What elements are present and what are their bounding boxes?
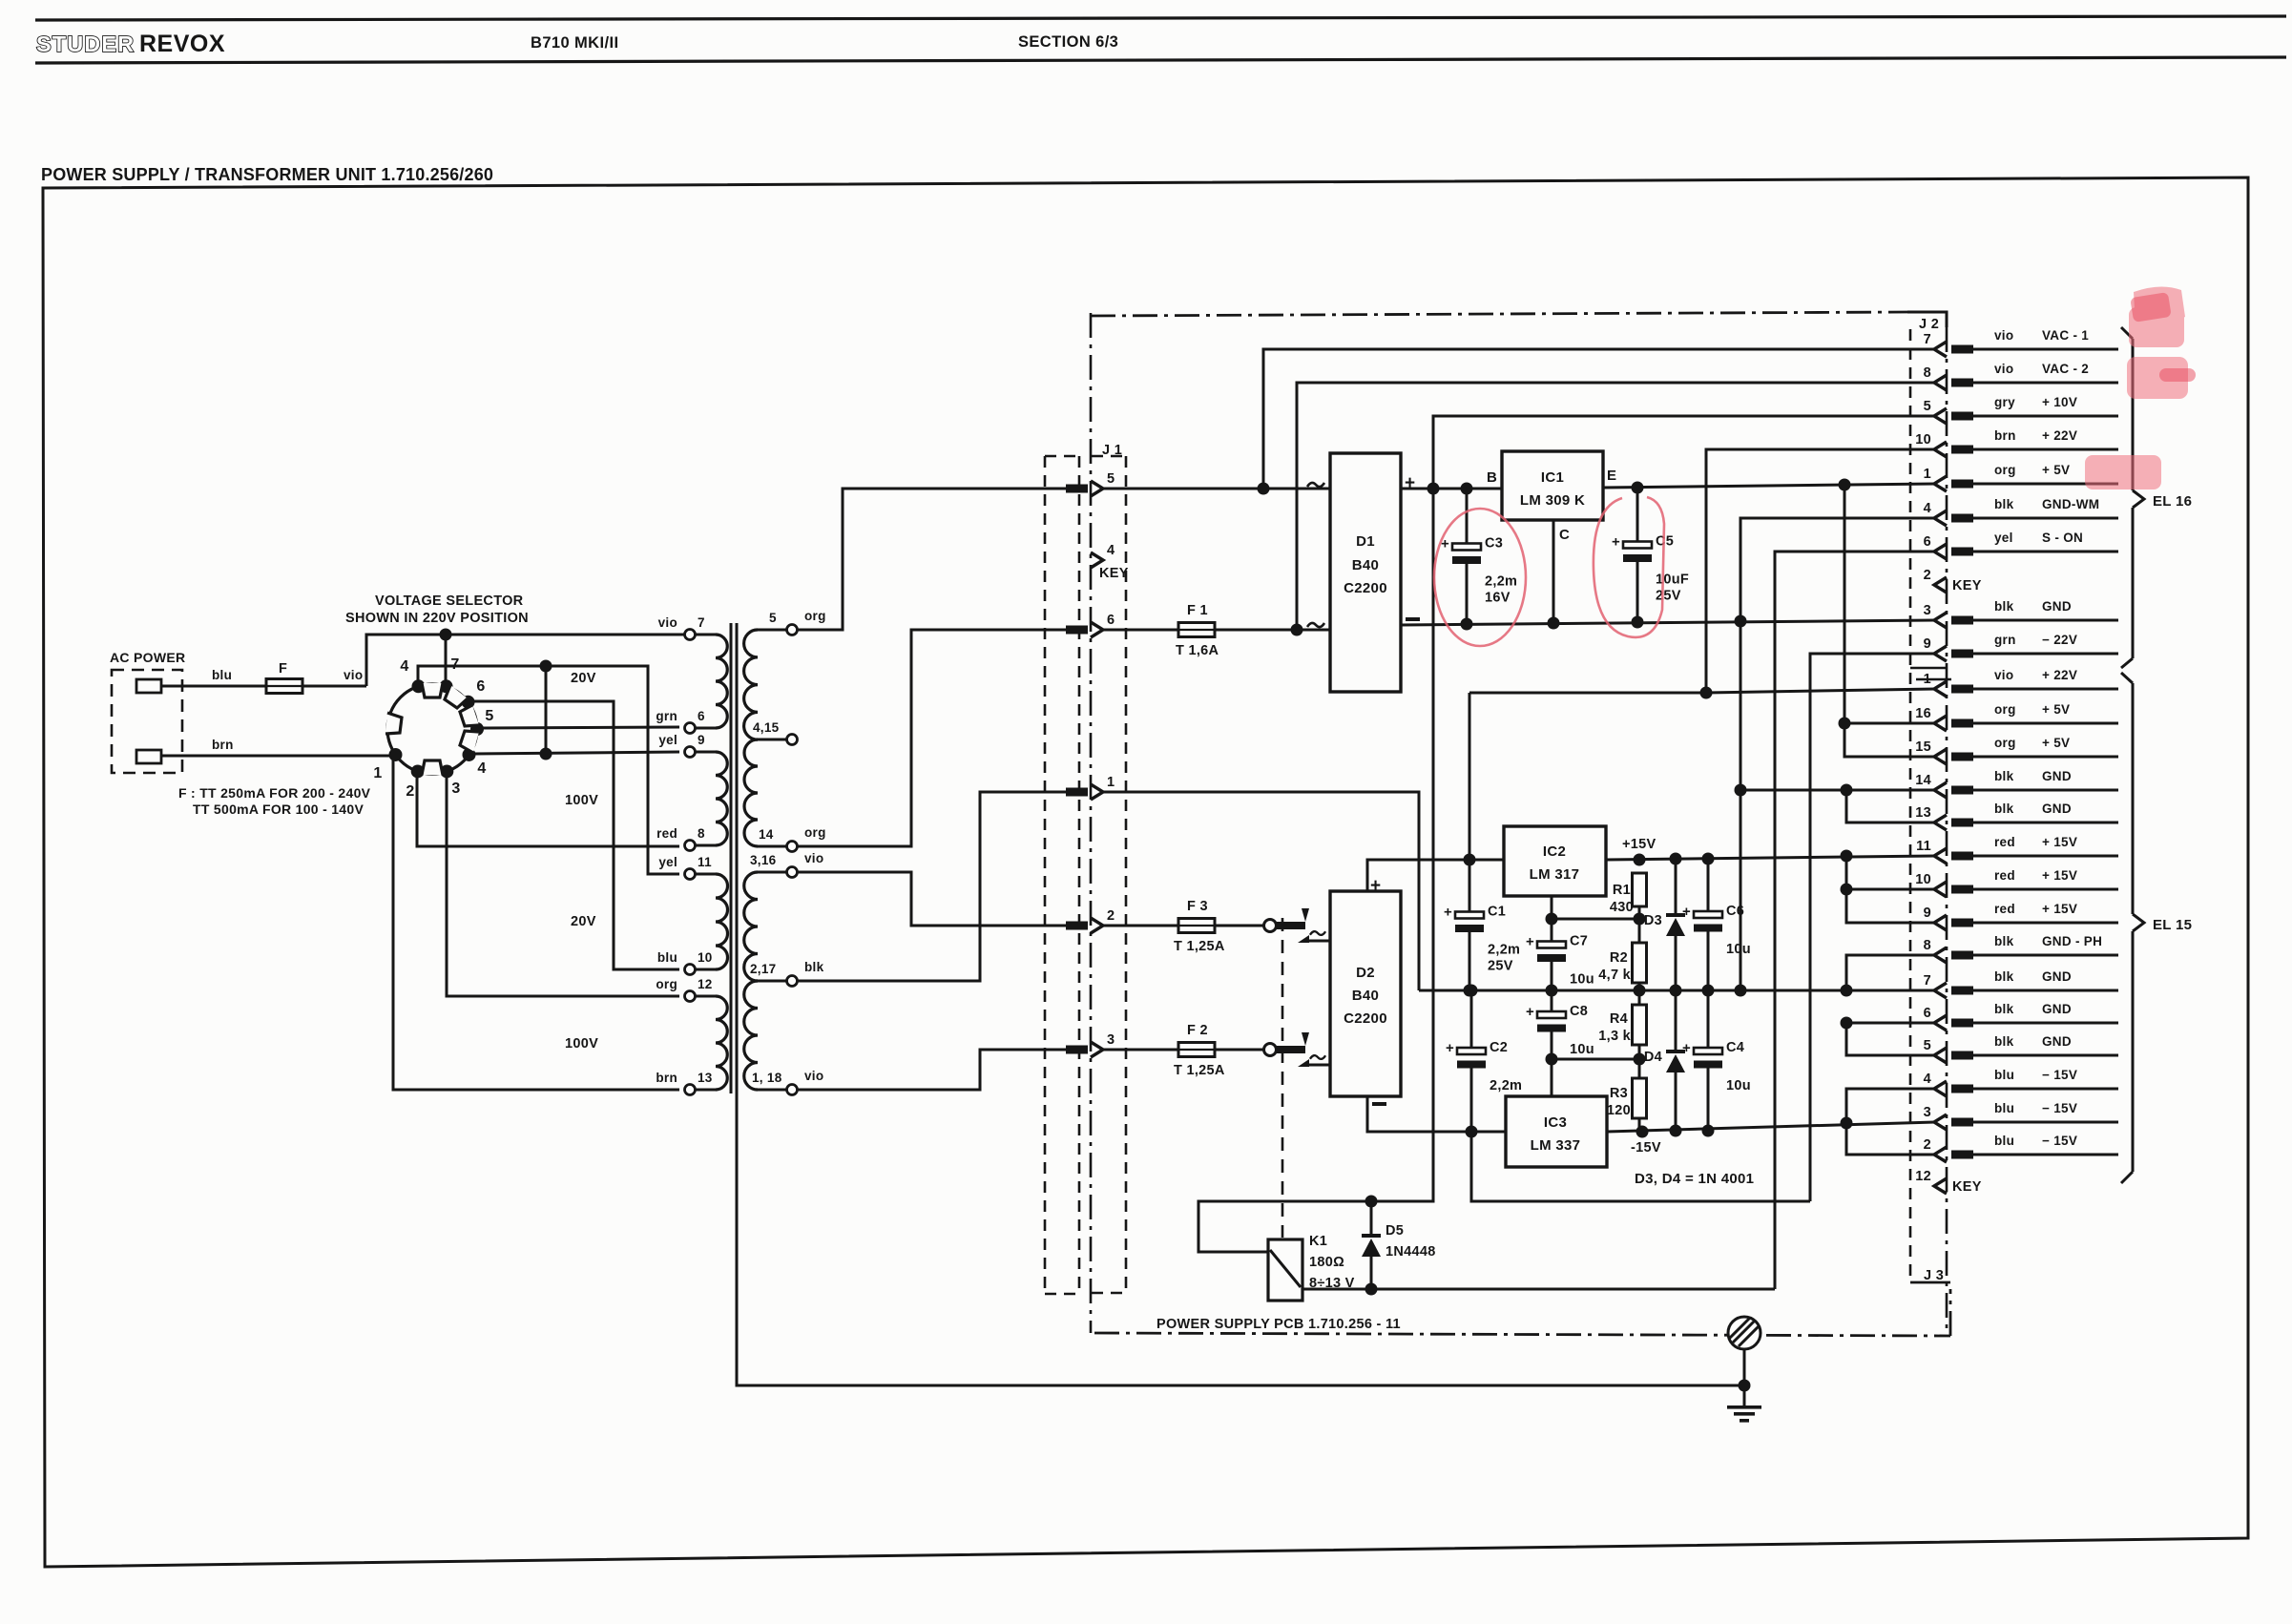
- svg-text:REVOX: REVOX: [139, 31, 225, 57]
- svg-text:1: 1: [373, 765, 382, 781]
- wire S-ON riser to J2 pin6: [1775, 552, 1935, 1289]
- J2 pin 14 wire and labels blk GND: [1973, 789, 2118, 792]
- diode D5: [1370, 1201, 1373, 1234]
- capacitor C3: [1466, 489, 1469, 549]
- svg-text:10u: 10u: [1726, 942, 1751, 957]
- secondary winding upper (5-4,15-14): [758, 629, 786, 632]
- svg-text:GND: GND: [2042, 599, 2072, 614]
- svg-text:+ 22V: + 22V: [2042, 428, 2077, 443]
- svg-text:6: 6: [1924, 534, 1931, 550]
- transformer core line left: [730, 623, 733, 1093]
- J2 pin 7 at y366: [1934, 342, 1947, 357]
- svg-text:B: B: [1487, 469, 1497, 486]
- svg-text:blu: blu: [212, 668, 232, 682]
- svg-text:11: 11: [1916, 839, 1931, 854]
- wire GND stub pin6: [1846, 1022, 1935, 1025]
- wire IC2 output +15V rail: [1606, 856, 1935, 860]
- svg-text:LM 309 K: LM 309 K: [1520, 492, 1585, 509]
- wire GND stub pin5: [1846, 1023, 1935, 1055]
- J2 pin 15 at y793: [1934, 749, 1947, 764]
- svg-text:blk: blk: [1994, 969, 2014, 984]
- wire K1 coil bottom to S-ON riser: [1302, 1288, 1775, 1291]
- svg-text:vio: vio: [1994, 668, 2013, 682]
- J1 pin 6: [1066, 626, 1088, 635]
- svg-text:3: 3: [1924, 1105, 1931, 1120]
- svg-text:C2200: C2200: [1344, 580, 1387, 596]
- junction +5V riser: [1839, 479, 1851, 491]
- svg-text:9: 9: [1924, 636, 1931, 652]
- J2 pin 2 wire and labels blu − 15V: [1973, 1154, 2118, 1156]
- J2 centerline dash-dot: [1946, 327, 1948, 1336]
- svg-text:16: 16: [1915, 706, 1931, 721]
- junction C1 top: [1464, 854, 1476, 866]
- J2 pin 10 at y471: [1934, 442, 1947, 457]
- svg-text:org: org: [804, 825, 826, 840]
- svg-text:13: 13: [1915, 805, 1931, 821]
- J2 pin 8 at y1001: [1934, 947, 1947, 963]
- svg-text:+: +: [1526, 934, 1534, 950]
- junction GND riser bottom: [1735, 985, 1747, 997]
- J2 pin 11 at y897: [1934, 848, 1947, 864]
- svg-text:IC3: IC3: [1544, 1114, 1567, 1131]
- svg-text:TT 500mA FOR 100 - 140V: TT 500mA FOR 100 - 140V: [193, 802, 364, 817]
- J2 pin 1 at y507: [1934, 476, 1947, 491]
- red circle around C3: [1434, 509, 1526, 646]
- junction GND stub pin6: [1841, 1017, 1853, 1030]
- svg-text:6: 6: [1107, 613, 1115, 628]
- chassis ground symbol: [1728, 1317, 1761, 1349]
- svg-text:blk: blk: [1994, 1034, 2014, 1049]
- svg-text:C6: C6: [1726, 904, 1744, 919]
- J2 pin 10 wire and labels brn + 22V: [1973, 448, 2118, 451]
- svg-text:3: 3: [1924, 603, 1931, 618]
- J2 pin 3 at y650: [1934, 613, 1947, 628]
- svg-text:1: 1: [1924, 467, 1931, 482]
- primary winding 20V (11-10): [695, 873, 716, 876]
- D2 AC tilde lower: [1310, 1055, 1325, 1059]
- svg-text:+ 5V: + 5V: [2042, 463, 2070, 477]
- junction R2/R4 mid: [1634, 985, 1646, 997]
- D1 minus: [1406, 617, 1420, 621]
- svg-text:120: 120: [1607, 1103, 1631, 1118]
- junction GND stub pin14: [1841, 784, 1853, 797]
- AC power connector dashed box: [112, 670, 182, 773]
- secondary winding lower (3,16-2,17-1,18): [758, 871, 786, 874]
- relay contact fixed lower: [1298, 1059, 1309, 1067]
- red highlight VAC-1: [2129, 286, 2185, 347]
- svg-text:+ 15V: + 15V: [2042, 868, 2077, 883]
- wire secondary 14 to J1 pin6: [798, 630, 1066, 846]
- svg-text:C7: C7: [1570, 934, 1588, 949]
- resistor R4: [1633, 1005, 1647, 1045]
- svg-text:blk: blk: [1994, 497, 2014, 511]
- svg-text:1: 1: [1107, 775, 1115, 790]
- J2 pin 2 at y1210: [1934, 1147, 1947, 1162]
- svg-text:2: 2: [1924, 1137, 1931, 1153]
- relay K1 diagonal: [1270, 1250, 1301, 1287]
- svg-text:9: 9: [698, 733, 705, 747]
- AC plug pin lower: [136, 750, 161, 763]
- svg-text:GND: GND: [2042, 969, 2072, 984]
- wire -15V stub pin2: [1846, 1123, 1935, 1155]
- svg-text:4: 4: [1107, 543, 1115, 558]
- IC2 regulator: [1504, 826, 1606, 896]
- wire -15V stub pin4: [1846, 1089, 1935, 1123]
- svg-text:gry: gry: [1994, 395, 2015, 409]
- J2 pin 8 wire and labels vio VAC - 2: [1973, 382, 2118, 385]
- J1 housing dashed right: [1092, 455, 1126, 458]
- J1 pin 2: [1066, 922, 1088, 930]
- fuse F: [266, 679, 302, 694]
- svg-text:S - ON: S - ON: [2042, 531, 2083, 545]
- svg-text:3,16: 3,16: [750, 853, 777, 867]
- wire contact6 to blu10: [472, 701, 679, 969]
- EL15 brace: [2121, 673, 2133, 683]
- wire GND-WM from riser to J2 pin4: [1740, 518, 1935, 621]
- IC1 regulator: [1502, 451, 1603, 520]
- svg-text:blk: blk: [1994, 802, 2014, 816]
- svg-text:org: org: [1994, 736, 2016, 750]
- svg-text:vio: vio: [1994, 362, 2013, 376]
- wire -22V riser to J2 pin9: [1810, 654, 1935, 1201]
- J2 pin 6 at y1072: [1934, 1015, 1947, 1031]
- wire vio fuse to selector riser: [302, 685, 366, 688]
- junction C1 bottom: [1464, 985, 1476, 997]
- svg-text:red: red: [1994, 868, 2015, 883]
- svg-text:6: 6: [698, 709, 705, 723]
- wire secondary 5 to J1 pin5: [798, 489, 1066, 630]
- svg-text:2: 2: [1107, 908, 1115, 924]
- J2 pin 6 wire and labels yel S - ON: [1973, 551, 2118, 553]
- wire contact4bottom to yel9: [473, 752, 679, 754]
- svg-text:4,7 k: 4,7 k: [1598, 968, 1631, 983]
- wire J1 pin6 to fuse F1: [1103, 629, 1179, 632]
- svg-text:EL 16: EL 16: [2153, 493, 2192, 510]
- J2 pin 14 at y828: [1934, 782, 1947, 798]
- junction VAC-1 riser: [1258, 483, 1270, 495]
- junction R1/R2 node: [1634, 913, 1646, 926]
- wire secondary 3,16 to J1 pin2: [798, 872, 1066, 926]
- svg-text:7: 7: [1924, 332, 1931, 347]
- svg-text:2,17: 2,17: [750, 962, 776, 976]
- svg-text:org: org: [804, 609, 826, 623]
- bridge rectifier D1: [1330, 453, 1401, 692]
- J2 pin 3 wire and labels blu − 15V: [1973, 1121, 2118, 1124]
- red highlight +5V: [2085, 455, 2161, 489]
- wire +22V rail riser down to D2+ node: [1469, 693, 1471, 860]
- svg-text:yel: yel: [1994, 531, 2013, 545]
- svg-text:blk: blk: [1994, 769, 2014, 783]
- primary winding 100V (9-8): [695, 751, 716, 754]
- svg-text:+: +: [1370, 876, 1381, 896]
- junction 4bottom line: [540, 748, 552, 760]
- svg-text:+ 22V: + 22V: [2042, 668, 2077, 682]
- svg-text:blk: blk: [804, 960, 824, 974]
- svg-text:D3: D3: [1644, 913, 1662, 928]
- J2 pin 8 at y401: [1934, 375, 1947, 390]
- transformer secondary terminals: [787, 625, 798, 635]
- svg-text:C8: C8: [1570, 1004, 1588, 1019]
- J2 pin 9 wire and labels red + 15V: [1973, 922, 2118, 925]
- svg-text:25V: 25V: [1656, 589, 1681, 604]
- J2 bracket top: [1907, 312, 1947, 327]
- svg-text:25V: 25V: [1488, 959, 1513, 974]
- svg-text:KEY: KEY: [1952, 578, 1982, 593]
- svg-text:F 3: F 3: [1187, 899, 1208, 914]
- J2 pin 13 wire and labels blk GND: [1973, 822, 2118, 824]
- svg-text:red: red: [1994, 835, 2015, 849]
- wire J1 pin3 to fuse F2: [1103, 1049, 1179, 1051]
- svg-text:8: 8: [1924, 938, 1931, 953]
- svg-text:R3: R3: [1610, 1086, 1628, 1101]
- junction 4top line: [540, 660, 552, 673]
- wire contact4top to yel11: [418, 666, 679, 874]
- J2 pin 4 at y543: [1934, 510, 1947, 526]
- svg-text:C3: C3: [1485, 536, 1503, 552]
- wire IC1 E +5V rail to J2 pin1: [1603, 484, 1935, 488]
- svg-text:13: 13: [698, 1071, 713, 1085]
- wire +22V riser to J2 pin10: [1706, 449, 1935, 693]
- svg-text:− 22V: − 22V: [2042, 633, 2077, 647]
- wire IC3 output -15V rail: [1607, 1122, 1935, 1132]
- svg-text:yel: yel: [658, 733, 677, 747]
- junction C5 top: [1632, 482, 1644, 494]
- junction +10V riser: [1427, 483, 1440, 495]
- wire -raw rail to -22V riser: [1471, 1132, 1810, 1201]
- wire F2 to relay contact: [1214, 1049, 1264, 1051]
- junction IC1 C pin: [1548, 617, 1560, 630]
- svg-text:T 1,25A: T 1,25A: [1174, 1063, 1225, 1078]
- svg-text:SHOWN IN 220V POSITION: SHOWN IN 220V POSITION: [345, 611, 529, 626]
- PCB boundary right lower corner: [1949, 1289, 1952, 1336]
- svg-text:blk: blk: [1994, 1002, 2014, 1016]
- J1 centerline dash-dot: [1090, 313, 1093, 1333]
- IC3 adj lead: [1551, 1059, 1553, 1096]
- svg-text:E: E: [1607, 468, 1616, 484]
- svg-text:STUDER: STUDER: [36, 31, 135, 56]
- wire +15V to J2 pin10b: [1846, 888, 1935, 891]
- junction C6 top: [1702, 853, 1715, 865]
- IC3 regulator: [1506, 1096, 1607, 1167]
- junction R4/R3 node: [1634, 1053, 1646, 1066]
- svg-text:5: 5: [1107, 471, 1115, 487]
- wire chassis to earth: [1743, 1349, 1746, 1407]
- svg-text:C: C: [1559, 527, 1570, 543]
- svg-text:-15V: -15V: [1631, 1140, 1661, 1156]
- wire J1 pin2 to fuse F3: [1103, 925, 1179, 927]
- svg-text:10: 10: [1915, 872, 1931, 887]
- J2 pin 16 at y758: [1934, 716, 1947, 731]
- selector contacts with numbers: [411, 679, 425, 693]
- svg-text:2,2m: 2,2m: [1490, 1078, 1522, 1093]
- wire contact5 to grn6: [481, 727, 679, 728]
- svg-text:VAC - 1: VAC - 1: [2042, 328, 2089, 343]
- EL16 brace: [2121, 327, 2133, 339]
- svg-text:LM 317: LM 317: [1530, 866, 1580, 883]
- svg-text:5: 5: [485, 708, 493, 724]
- wire blu from plug to fuse F: [161, 685, 266, 688]
- svg-text:vio: vio: [1994, 328, 2013, 343]
- wire contact2 to red8: [417, 778, 679, 846]
- wire VAC-2 riser and line to J2 pin8: [1297, 383, 1935, 630]
- svg-text:2: 2: [1924, 568, 1931, 583]
- J2 pin 5 at y436: [1934, 408, 1947, 424]
- bridge rectifier D2: [1330, 891, 1401, 1096]
- fuse F1: [1178, 623, 1215, 637]
- svg-text:C2200: C2200: [1344, 1010, 1387, 1027]
- wire R4-R3 node: [1638, 1045, 1641, 1078]
- svg-text:3: 3: [1107, 1032, 1115, 1048]
- svg-text:F 1: F 1: [1187, 603, 1208, 618]
- svg-text:brn: brn: [656, 1071, 677, 1085]
- diode D4: [1675, 990, 1677, 1050]
- svg-text:4,15: 4,15: [753, 720, 780, 735]
- svg-text:C1: C1: [1488, 905, 1506, 920]
- D2 minus: [1372, 1102, 1386, 1106]
- resistor R3: [1633, 1078, 1647, 1118]
- svg-text:10: 10: [698, 950, 713, 965]
- J2 pin 5 at y1106: [1934, 1048, 1947, 1063]
- junction +15V pin10: [1841, 884, 1853, 896]
- mid ground rail: [1419, 989, 1935, 992]
- svg-text:+: +: [1405, 473, 1415, 493]
- svg-text:100V: 100V: [565, 793, 598, 808]
- wire +15V stub pins 10,9: [1846, 856, 1935, 923]
- J2 pin 15 wire and labels org + 5V: [1973, 756, 2118, 759]
- svg-text:10u: 10u: [1570, 1042, 1594, 1057]
- svg-text:AC POWER: AC POWER: [110, 650, 185, 665]
- wire F3 to relay contact: [1214, 925, 1264, 927]
- svg-text:yel: yel: [658, 855, 677, 869]
- junction R1 top: [1634, 854, 1646, 866]
- AC plug pin upper: [136, 679, 161, 693]
- junction +22V riser: [1700, 687, 1713, 699]
- J2 pin 1 wire and labels org + 5V: [1973, 483, 2118, 486]
- wire brn from plug to selector contact 1: [161, 755, 391, 758]
- header top rule: [35, 16, 2286, 20]
- svg-text:20V: 20V: [571, 914, 596, 929]
- J2 pin 5 wire and labels gry + 10V: [1973, 415, 2118, 418]
- svg-text:T 1,25A: T 1,25A: [1174, 939, 1225, 954]
- capacitor C6: [1707, 859, 1710, 917]
- wire GND to J2 pin14: [1740, 789, 1935, 792]
- J2 pin 5 wire and labels blk GND: [1973, 1054, 2118, 1057]
- relay rail D5 junction: [1365, 1196, 1378, 1208]
- resistor R1: [1633, 873, 1647, 906]
- resistor R2: [1633, 943, 1647, 983]
- relay contact terminal lower: [1264, 1044, 1277, 1056]
- svg-text:SECTION 6/3: SECTION 6/3: [1018, 33, 1118, 51]
- junction C7/C8 mid: [1546, 985, 1558, 997]
- svg-text:F: F: [279, 661, 287, 677]
- wire +5V riser to J2 pins16,15: [1844, 485, 1935, 757]
- svg-text:8÷13 V: 8÷13 V: [1309, 1276, 1355, 1291]
- capacitor C8: [1551, 990, 1553, 1017]
- svg-text:+ 10V: + 10V: [2042, 395, 2077, 409]
- svg-text:C4: C4: [1726, 1040, 1744, 1055]
- J2 housing dashed line: [1909, 329, 1912, 1283]
- IC2 adj lead: [1551, 896, 1553, 919]
- J2 pin 4 wire and labels blu − 15V: [1973, 1088, 2118, 1091]
- svg-text:IC1: IC1: [1541, 469, 1564, 486]
- J2 pin 9 wire and labels grn − 22V: [1973, 653, 2118, 656]
- transformer core line right (screen to chassis): [737, 623, 1739, 1385]
- J2 pin 11 wire and labels red + 15V: [1973, 855, 2118, 858]
- capacitor C5: [1636, 488, 1639, 547]
- svg-text:K1: K1: [1309, 1234, 1327, 1249]
- svg-text:− 15V: − 15V: [2042, 1068, 2077, 1082]
- J2 pin 9 at y967: [1934, 915, 1947, 930]
- junction C2 bottom: [1466, 1126, 1478, 1138]
- wire C8 node to R4/R3 node: [1552, 1058, 1639, 1061]
- wire GND stub to J2 pin13: [1846, 790, 1935, 822]
- svg-text:R4: R4: [1610, 1011, 1628, 1027]
- svg-text:F 2: F 2: [1187, 1023, 1208, 1038]
- svg-text:J 2: J 2: [1919, 317, 1939, 332]
- J2 pin 10 wire and labels red + 15V: [1973, 888, 2118, 891]
- svg-text:brn: brn: [1994, 428, 2016, 443]
- svg-text:blu: blu: [1994, 1101, 2014, 1115]
- svg-text:D4: D4: [1644, 1050, 1662, 1065]
- junction C6/C4 mid: [1702, 985, 1715, 997]
- svg-text:VOLTAGE SELECTOR: VOLTAGE SELECTOR: [375, 593, 524, 609]
- svg-text:+15V: +15V: [1622, 837, 1656, 852]
- svg-text:blu: blu: [1994, 1134, 2014, 1148]
- svg-text:+ 5V: + 5V: [2042, 702, 2070, 717]
- svg-text:16V: 16V: [1485, 591, 1511, 606]
- transformer primary terminals: [685, 630, 696, 640]
- J2 pin 12 at y1243: [1934, 1178, 1947, 1194]
- svg-text:org: org: [656, 977, 677, 991]
- red circle around C5: [1594, 497, 1664, 637]
- red highlight VAC-2: [2127, 357, 2188, 399]
- svg-text:org: org: [1994, 463, 2016, 477]
- svg-text:GND: GND: [2042, 769, 2072, 783]
- svg-text:EL 15: EL 15: [2153, 917, 2192, 933]
- svg-text:1N4448: 1N4448: [1386, 1244, 1436, 1260]
- wire GND-PH stub pin8: [1846, 955, 1935, 990]
- junction VAC-2 riser: [1291, 624, 1303, 636]
- svg-text:vio: vio: [804, 1069, 823, 1083]
- svg-text:D1: D1: [1356, 533, 1375, 550]
- wire contact1 to brn13: [393, 760, 679, 1090]
- junction GND stub pins 8-5: [1841, 985, 1853, 997]
- J2 pin 7 wire and labels vio VAC - 1: [1973, 348, 2118, 351]
- J2 pin 7 at y1038: [1934, 983, 1947, 998]
- junction on vio line: [440, 629, 452, 641]
- svg-text:8: 8: [698, 826, 705, 841]
- J2 pin 3 at y1176: [1934, 1114, 1947, 1130]
- J2 pin 6 at y578: [1934, 544, 1947, 559]
- relay contact terminal upper: [1264, 920, 1277, 932]
- wire J1 pin1 to GND corner: [1103, 792, 1419, 990]
- svg-text:IC2: IC2: [1543, 843, 1566, 860]
- svg-text:B710 MKI/II: B710 MKI/II: [531, 34, 618, 52]
- svg-text:430: 430: [1610, 900, 1634, 915]
- junction -15V stub: [1841, 1117, 1853, 1130]
- svg-text:GND - PH: GND - PH: [2042, 934, 2102, 948]
- svg-text:+ 15V: + 15V: [2042, 835, 2077, 849]
- svg-text:7: 7: [698, 615, 705, 630]
- svg-text:+: +: [1612, 534, 1620, 551]
- svg-text:9: 9: [1924, 906, 1931, 921]
- svg-text:D3, D4 = 1N 4001: D3, D4 = 1N 4001: [1635, 1171, 1754, 1187]
- header bottom rule: [35, 57, 2286, 63]
- wire R3 to -15V rail: [1638, 1118, 1641, 1132]
- D1 tilde upper: [1307, 483, 1324, 487]
- J2 pin 3 wire and labels blk GND: [1973, 619, 2118, 622]
- svg-text:T 1,6A: T 1,6A: [1176, 643, 1219, 658]
